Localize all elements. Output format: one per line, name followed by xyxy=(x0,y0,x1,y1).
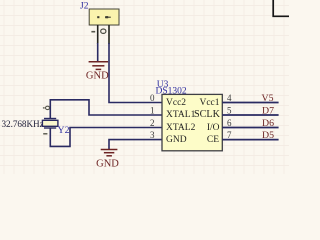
svg-text:Y2: Y2 xyxy=(58,125,70,136)
crystal Y2 body xyxy=(42,120,58,126)
svg-text:J2: J2 xyxy=(80,2,89,12)
svg-text:I/O: I/O xyxy=(207,123,220,133)
svg-text:Vcc2: Vcc2 xyxy=(166,98,186,108)
wire: crystal bottom to U3 XTAL2 (pin 2) xyxy=(50,128,162,147)
wire: J2 left pin to ground xyxy=(97,43,99,62)
svg-text:7: 7 xyxy=(227,130,232,140)
svg-text:SCLK: SCLK xyxy=(194,109,221,120)
svg-text:GND: GND xyxy=(86,71,109,82)
svg-text:D7: D7 xyxy=(262,106,274,117)
svg-text:3: 3 xyxy=(150,130,155,140)
ground symbol (lower) xyxy=(101,150,118,156)
connector J2 body xyxy=(89,9,119,25)
ground symbol (upper) xyxy=(89,62,109,70)
svg-text:2: 2 xyxy=(150,118,155,128)
crystal Y2 rotated pin number (bottom) xyxy=(43,133,47,135)
wire: U3 Vcc1 (pin 4) to net V5 xyxy=(222,102,278,104)
crystal Y2 rotated pin number (top) xyxy=(43,106,50,109)
J2 rotated pin number 0 xyxy=(101,29,106,33)
wire: crystal top to U3 XTAL1 (pin 1) xyxy=(50,100,162,119)
wire: J2 pin 2 down and right to U3 Vcc2 (pin 0) xyxy=(109,43,162,103)
svg-text:0: 0 xyxy=(150,93,155,103)
svg-text:XTAL2: XTAL2 xyxy=(166,123,196,133)
wire: U3 SCLK (pin 5) to net D7 xyxy=(222,114,278,116)
svg-text:Vcc1: Vcc1 xyxy=(199,98,219,108)
svg-text:V5: V5 xyxy=(262,93,274,104)
svg-text:32.768KHz: 32.768KHz xyxy=(2,119,44,129)
crystal Y2 bottom plate xyxy=(44,127,56,129)
svg-text:5: 5 xyxy=(227,106,232,116)
J2 rotated pin number 1 xyxy=(91,31,95,33)
wire: U3 GND (pin 3) to ground xyxy=(109,140,162,150)
wire: U3 I/O (pin 6) to net D6 xyxy=(222,127,278,129)
svg-text:D5: D5 xyxy=(262,130,274,141)
sheet border corner (top right) xyxy=(273,0,289,16)
IC U3 body xyxy=(162,94,222,150)
svg-text:GND: GND xyxy=(166,135,187,145)
connector J2 polarity marks xyxy=(97,16,111,18)
svg-text:D6: D6 xyxy=(262,118,274,129)
J2 pin 2 (right pin lead) xyxy=(108,25,110,44)
crystal Y2 top plate xyxy=(44,118,56,120)
svg-text:XTAL1: XTAL1 xyxy=(166,110,196,120)
svg-text:1: 1 xyxy=(150,106,155,116)
wire: U3 CE (pin 7) to net D5 xyxy=(222,139,278,141)
svg-text:CE: CE xyxy=(207,135,219,145)
svg-text:4: 4 xyxy=(227,93,232,103)
J2 pin 1 (left pin lead) xyxy=(97,25,99,44)
svg-text:GND: GND xyxy=(96,159,119,170)
svg-text:6: 6 xyxy=(227,118,232,128)
